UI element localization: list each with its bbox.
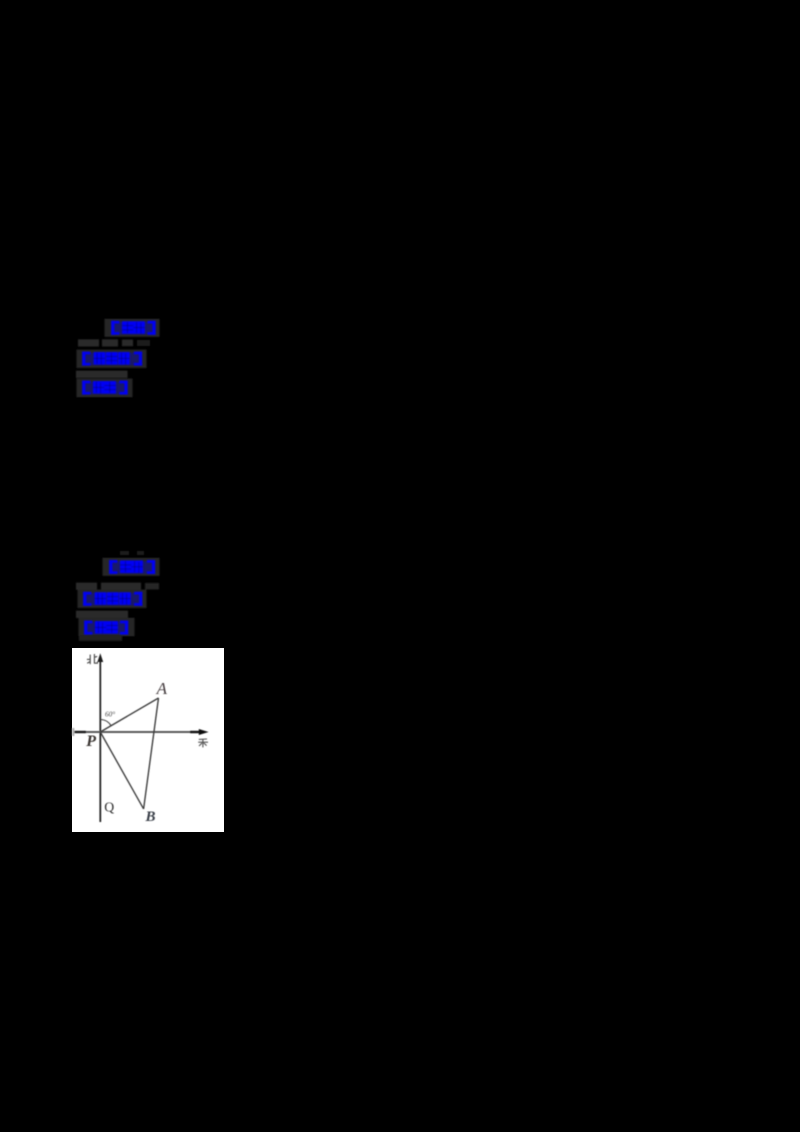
blue label 2.2 detailed-solution tag (5 glyphs) [83, 592, 142, 606]
shaded text trace row between labels 1.2 and 1.3 [76, 371, 128, 378]
field shading halo behind blue label 2.1 [103, 558, 160, 576]
north axis [99, 660, 101, 822]
blue label 1.3 key-point tag [82, 381, 128, 395]
60 degree arc [100, 720, 111, 726]
svg-text:A: A [156, 679, 168, 698]
line PB [100, 732, 143, 809]
blue label 1.1 analysis tag [111, 321, 156, 335]
east axis shaft [74, 731, 200, 733]
field shading halo behind blue label 1.2 [77, 350, 147, 368]
white figure background [72, 648, 224, 832]
line PA [100, 698, 158, 732]
svg-text:Q: Q [104, 799, 114, 814]
field shading halo behind blue label 2.3 [79, 618, 135, 636]
shaded text trace row between labels 2.1 and 2.2 [76, 583, 97, 590]
blue label 2.1 analysis tag [109, 560, 155, 574]
line AB [144, 698, 159, 809]
blue label 2.3 key-point tag [84, 621, 128, 635]
west end cap tick [72, 728, 74, 736]
blue label 1.2 detailed-solution tag (5 glyphs) [82, 352, 142, 366]
shaded text trace row between labels 2.2 and 2.3 [76, 611, 128, 618]
east axis dark right segment [190, 731, 200, 733]
shaded text trace row below label 2.3 [79, 635, 122, 641]
label north glyph [87, 654, 98, 664]
field shading halo behind blue label 1.3 [77, 379, 133, 398]
east axis dark left segment [74, 731, 86, 733]
svg-text:P: P [85, 733, 96, 750]
north arrowhead [97, 653, 103, 662]
faint smudges above label 2.1 [120, 551, 129, 555]
field shading halo behind blue label 1.1 [105, 319, 160, 337]
field shading halo behind blue label 2.2 [78, 590, 147, 608]
svg-text:60°: 60° [105, 711, 115, 719]
shaded text trace row between labels 1.1 and 1.2 [78, 339, 99, 346]
label east glyph [198, 739, 208, 747]
svg-text:B: B [145, 809, 156, 825]
east arrowhead [199, 729, 209, 735]
